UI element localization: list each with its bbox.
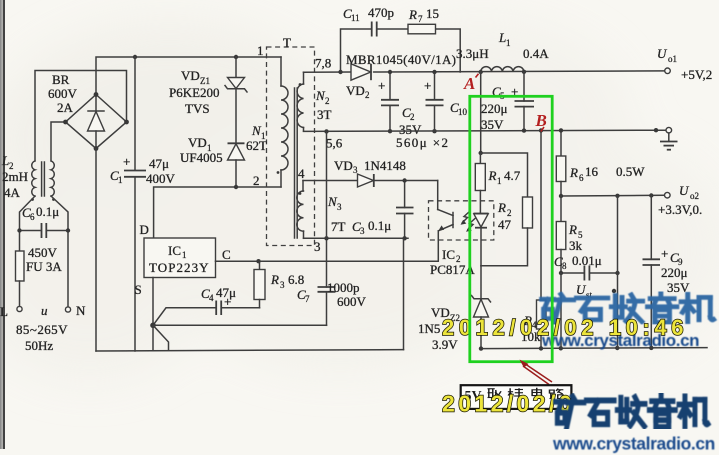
svg-text:L: L <box>498 30 506 45</box>
svg-text:U: U <box>657 46 668 61</box>
wire: pin4 feedback wire <box>303 180 438 182</box>
junction: source node <box>150 323 156 329</box>
svg-text:47μ: 47μ <box>149 156 169 171</box>
resistor R1 <box>475 153 485 214</box>
resistor R5 <box>556 196 566 273</box>
svg-text:1: 1 <box>506 38 511 48</box>
terminal N <box>65 307 70 312</box>
IC1 TOP223Y box <box>144 238 216 278</box>
wire: secondary common rail B <box>304 130 666 131</box>
svg-text:+: + <box>123 154 130 169</box>
svg-text:N: N <box>76 303 86 318</box>
svg-text:TVS: TVS <box>185 101 210 116</box>
svg-text:0.01μ: 0.01μ <box>572 253 602 268</box>
svg-text:470p: 470p <box>368 5 394 20</box>
label box 5V sampling circuit <box>461 385 572 409</box>
inductor L2 common mode choke <box>31 161 55 201</box>
svg-text:4.7: 4.7 <box>504 168 521 183</box>
wire: AC feed from choke to bridge right corner <box>35 71 127 161</box>
terminal L <box>17 306 22 311</box>
svg-text:VD: VD <box>181 68 200 83</box>
capacitor C6 line wire <box>20 230 41 232</box>
capacitor C5 <box>511 72 534 133</box>
svg-text:A: A <box>463 74 475 93</box>
svg-text:2mH: 2mH <box>2 169 28 184</box>
svg-text:1N4148: 1N4148 <box>364 158 406 173</box>
wire: pin2 / drain wire <box>154 187 281 238</box>
resistor R7 <box>408 24 436 34</box>
svg-text:MBR1045(40V/1A): MBR1045(40V/1A) <box>346 52 456 67</box>
svg-text:C: C <box>222 247 231 262</box>
svg-text:0.5W: 0.5W <box>616 164 645 179</box>
svg-text:IC: IC <box>168 243 181 258</box>
junction: L1 right / C5 tap <box>522 70 526 74</box>
light arrows of IC2 <box>461 212 476 232</box>
svg-text:400V: 400V <box>146 171 176 186</box>
svg-text:220μ: 220μ <box>661 265 688 280</box>
wire: +5V output rail <box>304 71 352 73</box>
wire: pin3 wire <box>304 237 409 239</box>
svg-text:TOP223Y: TOP223Y <box>149 260 209 275</box>
svg-text:7: 7 <box>305 294 310 304</box>
svg-text:FU 3A: FU 3A <box>26 259 62 274</box>
svg-text:VD: VD <box>346 83 365 98</box>
wire: choke right to N line <box>51 196 68 307</box>
svg-text:1: 1 <box>118 175 123 185</box>
svg-text:7T: 7T <box>331 219 346 234</box>
wire: B node drop / R4 <box>537 128 547 348</box>
wire: control pin wire <box>216 260 438 262</box>
svg-text:0.4A: 0.4A <box>523 46 549 61</box>
svg-text:1000p: 1000p <box>327 280 360 295</box>
svg-text:1: 1 <box>257 43 264 58</box>
svg-text:L: L <box>0 304 8 319</box>
svg-text:1N5: 1N5 <box>418 321 440 336</box>
svg-text:www.crystalradio.cn: www.crystalradio.cn <box>552 434 715 454</box>
svg-text:15: 15 <box>426 6 439 21</box>
capacitor C7 <box>318 238 336 325</box>
svg-text:U: U <box>679 183 690 198</box>
transformer core <box>294 88 296 238</box>
svg-text:R: R <box>408 7 417 22</box>
ground symbol <box>660 133 678 150</box>
wire: main DC+ top rail <box>96 57 281 95</box>
svg-text:2A: 2A <box>57 100 74 115</box>
svg-text:+5V,2: +5V,2 <box>681 67 712 82</box>
wire: rail B down to pin3 wire <box>326 131 328 238</box>
wire: source pin <box>152 278 154 326</box>
diode VD3 <box>358 174 374 187</box>
svg-text:UF4005: UF4005 <box>180 150 223 165</box>
snubber loop wire <box>341 29 372 72</box>
svg-text:4: 4 <box>209 293 214 303</box>
svg-text:1: 1 <box>497 176 502 186</box>
wire: bridge minus down rail <box>95 149 97 352</box>
capacitor C2 <box>378 70 399 134</box>
junction: rail to C1 <box>133 55 137 59</box>
svg-text:2012/02/02 10:46: 2012/02/02 10:46 <box>442 315 688 340</box>
resistor R2 <box>481 153 533 266</box>
svg-text:1: 1 <box>182 250 187 260</box>
capacitor C1 <box>123 57 146 351</box>
TVS diode VDZ1 <box>225 57 247 143</box>
svg-text:50Hz: 50Hz <box>25 338 53 353</box>
resistor R3 <box>254 261 265 308</box>
svg-text:VD: VD <box>334 158 353 173</box>
capacitor C10 <box>424 70 444 134</box>
svg-text:600V: 600V <box>48 86 78 101</box>
wire: primary bottom return <box>96 350 404 351</box>
green highlight box <box>470 96 552 361</box>
svg-text:220μ: 220μ <box>481 101 508 116</box>
svg-text:6: 6 <box>579 173 584 183</box>
svg-text:4A: 4A <box>4 185 21 200</box>
svg-text:2: 2 <box>253 173 260 188</box>
svg-text:6: 6 <box>30 212 35 222</box>
LED of IC2 <box>474 214 489 266</box>
svg-text:R: R <box>270 272 279 287</box>
svg-text:47μ: 47μ <box>216 285 236 300</box>
svg-text:o1: o1 <box>668 54 677 64</box>
svg-text:85~265V: 85~265V <box>16 322 68 337</box>
wire: R8 column down <box>617 196 619 348</box>
junction: rail B ground tap <box>654 128 658 132</box>
watermark 2 big characters <box>556 395 708 427</box>
wire: sampling bottom return <box>481 348 707 349</box>
svg-text:P6KE200: P6KE200 <box>169 85 220 100</box>
svg-text:T: T <box>283 35 291 50</box>
svg-text:BR: BR <box>52 72 70 87</box>
wire: choke right winding to bridge left corner <box>51 122 66 161</box>
svg-text:+3.3V,0.: +3.3V,0. <box>658 202 702 217</box>
svg-text:R: R <box>497 200 506 215</box>
capacitor C4 wire <box>153 308 215 326</box>
wire: 3.3V output wire <box>561 194 664 197</box>
svg-text:R: R <box>568 222 577 237</box>
junction: rail to clamp <box>234 55 238 59</box>
svg-text:3T: 3T <box>317 107 332 122</box>
svg-text:450V: 450V <box>28 245 58 260</box>
secondary winding N2 <box>297 72 303 131</box>
primary winding N1 <box>277 57 288 187</box>
wire: source return to C7 <box>153 324 327 326</box>
svg-text:10: 10 <box>458 107 468 117</box>
red arrow to green box <box>520 360 553 385</box>
fuse FU <box>16 251 25 281</box>
svg-text:4: 4 <box>298 166 305 181</box>
svg-text:3: 3 <box>360 226 365 236</box>
secondary winding N3 <box>297 181 304 239</box>
wire: A sampling drop <box>480 72 482 153</box>
svg-text:IC: IC <box>442 247 455 262</box>
scan mottling <box>0 20 719 380</box>
svg-text:0.1μ: 0.1μ <box>36 204 59 219</box>
svg-text:D: D <box>140 222 149 237</box>
capacitor C9 <box>643 196 669 348</box>
diode VD1 <box>228 143 245 187</box>
svg-text:o2: o2 <box>690 191 699 201</box>
resistor R6 <box>556 128 566 196</box>
optocoupler IC2 dashed box <box>429 201 494 240</box>
capacitor C11 <box>371 22 373 37</box>
transformer T dashed box <box>267 47 315 246</box>
svg-text:3: 3 <box>314 239 321 254</box>
bridge rectifier BR <box>63 92 129 151</box>
watermark 1 big characters <box>542 293 714 323</box>
svg-text:7: 7 <box>418 14 423 24</box>
svg-text:+: + <box>424 78 431 93</box>
svg-text:B: B <box>535 111 547 130</box>
svg-text:3: 3 <box>280 280 285 290</box>
svg-text:+: + <box>661 246 668 261</box>
svg-text:S: S <box>135 282 142 297</box>
junction: node A on rail <box>479 70 483 74</box>
svg-text:0.1μ: 0.1μ <box>368 218 391 233</box>
wire: choke left to L line <box>20 196 36 251</box>
capacitor C8 wire <box>559 266 620 349</box>
svg-text:35V: 35V <box>481 117 504 132</box>
terminal Uo2 <box>665 192 671 198</box>
svg-text:6.8: 6.8 <box>288 272 304 287</box>
svg-text:3.3μH: 3.3μH <box>456 46 489 61</box>
wire: C3 node down to shield return <box>403 238 405 349</box>
capacitor C3 <box>396 178 414 240</box>
svg-text:3k: 3k <box>569 238 583 253</box>
svg-text:VD: VD <box>188 135 207 150</box>
svg-text:R: R <box>488 168 497 183</box>
svg-text:11: 11 <box>351 13 360 23</box>
svg-text:5,6: 5,6 <box>326 136 343 151</box>
svg-text:3: 3 <box>353 165 358 175</box>
svg-text:8: 8 <box>562 261 567 271</box>
terminal Uo1 <box>665 68 671 74</box>
diode VD2 MBR1045 <box>351 64 371 80</box>
inductor L1 <box>481 67 524 72</box>
svg-text:2: 2 <box>365 90 370 100</box>
svg-text:R: R <box>569 165 578 180</box>
svg-text:3: 3 <box>337 202 342 212</box>
terminal ground <box>666 127 672 133</box>
svg-text:L: L <box>1 153 9 168</box>
svg-text:16: 16 <box>585 164 599 179</box>
svg-text:+: + <box>378 78 385 93</box>
svg-text:600V: 600V <box>337 294 367 309</box>
svg-text:2: 2 <box>325 96 330 106</box>
svg-text:2: 2 <box>410 112 415 122</box>
svg-text:7,8: 7,8 <box>315 56 331 71</box>
scanner page edge line <box>0 0 2 449</box>
phototransistor of IC2 <box>438 181 453 262</box>
svg-text:u: u <box>41 303 48 318</box>
zener diode VDZ2 <box>472 266 491 349</box>
svg-text:47: 47 <box>498 217 512 232</box>
svg-text:62T: 62T <box>246 138 267 153</box>
